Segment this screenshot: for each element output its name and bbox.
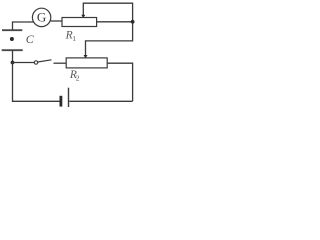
galvanometer G circle [32, 8, 50, 26]
capacitor C top plate [2, 29, 22, 31]
R1 wiper: top loop wire [83, 3, 132, 58]
wire R1 right to junction [97, 21, 133, 23]
switch pivot circle [34, 61, 37, 64]
R2 wiper arrowhead [84, 55, 88, 58]
svg-text:C: C [26, 32, 35, 46]
resistor R1 box [62, 18, 97, 27]
svg-text:1: 1 [72, 34, 76, 43]
battery short thick plate (negative) [60, 96, 63, 107]
wire left junction down to bottom rail, rail to battery [13, 63, 60, 102]
wire R2 right down to bottom rail [107, 63, 132, 101]
capacitor C bottom plate [2, 49, 23, 51]
junction dot right [131, 20, 135, 24]
charged particle dot between plates [10, 37, 14, 41]
wire from capacitor top plate up and right to galvanometer [13, 22, 34, 30]
junction dot left [11, 61, 15, 65]
svg-text:G: G [37, 10, 46, 25]
switch blade [38, 60, 52, 62]
R1 wiper arrowhead [81, 15, 85, 18]
resistor R2 box [66, 58, 107, 68]
svg-text:2: 2 [76, 74, 80, 83]
wire capacitor bottom plate down to junction [12, 50, 14, 62]
battery tall thin plate (positive) [68, 88, 70, 107]
bottom rail right of battery [69, 100, 132, 102]
wire switch to R2 [54, 62, 67, 64]
wire galvanometer to R1 [50, 20, 62, 22]
wire junction to switch [13, 62, 35, 64]
